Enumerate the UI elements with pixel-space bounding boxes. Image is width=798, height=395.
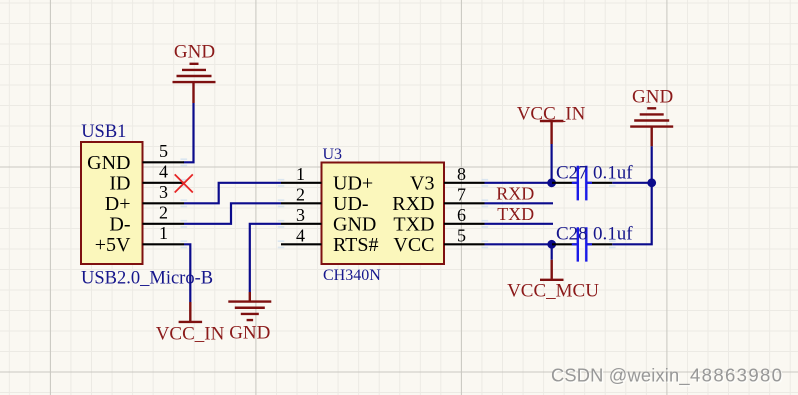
svg-text:4: 4 <box>159 161 168 181</box>
wire C27 to GND rail <box>612 182 651 184</box>
svg-text:5: 5 <box>159 141 168 161</box>
wire VCC_MCU stem <box>551 244 553 259</box>
svg-text:TXD: TXD <box>393 213 434 235</box>
svg-text:V3: V3 <box>410 172 434 194</box>
svg-text:3: 3 <box>296 205 305 225</box>
svg-text:RXD: RXD <box>496 183 534 203</box>
svg-text:VCC: VCC <box>393 234 434 256</box>
wire D- net: USB1 pin2 to U3 pin2 <box>184 203 281 224</box>
U3 pin 1 UD+ <box>281 164 373 195</box>
U3 pin 4 RTS# <box>281 225 378 256</box>
svg-text:GND: GND <box>333 213 376 235</box>
wire from GND port to USB1 pin 5 <box>184 103 194 162</box>
svg-text:CH340N: CH340N <box>323 267 381 284</box>
svg-text:8: 8 <box>457 164 466 184</box>
U3 pin 8 V3 <box>410 164 484 195</box>
wire U3 pin3 GND to ground <box>250 224 281 292</box>
svg-text:6: 6 <box>457 205 466 225</box>
power port VCC_MCU <box>540 260 564 280</box>
USB1 pin 4 ID <box>109 161 184 194</box>
power port VCC_IN (bottom, below USB1) <box>179 302 203 322</box>
svg-text:+5V: +5V <box>95 234 131 256</box>
IC U3 body <box>322 163 445 265</box>
svg-text:GND: GND <box>174 42 215 63</box>
svg-text:7: 7 <box>457 184 466 204</box>
svg-text:VCC_IN: VCC_IN <box>156 324 225 345</box>
svg-text:C27: C27 <box>556 162 588 183</box>
U3 pin 2 UD- <box>281 184 369 215</box>
wire +5V: USB1 pin1 to VCC_IN port <box>184 244 190 302</box>
wire VCC_IN port to V3 rail <box>550 144 552 183</box>
USB1 pin 3 D+ <box>105 182 184 215</box>
svg-text:VCC_MCU: VCC_MCU <box>507 281 599 302</box>
svg-text:C28: C28 <box>556 223 588 244</box>
svg-text:USB1: USB1 <box>81 122 126 142</box>
power port VCC_IN (top right) <box>540 121 564 144</box>
svg-text:5: 5 <box>457 225 466 245</box>
wire C28 right up to V3/GND rail <box>612 183 651 245</box>
junction at GND / C27 right <box>647 178 656 187</box>
power port GND (top left) <box>173 64 216 103</box>
svg-text:RTS#: RTS# <box>333 234 378 256</box>
svg-text:48863980: 48863980 <box>690 365 782 386</box>
svg-text:0.1uf: 0.1uf <box>593 223 633 244</box>
power port GND (top right) <box>630 108 673 146</box>
U3 pin 5 VCC <box>393 225 484 256</box>
USB1 pin 2 D- <box>109 202 184 235</box>
U3 pin 6 TXD <box>393 205 484 236</box>
capacitor C27 <box>552 166 612 201</box>
U3 pin 3 GND <box>281 205 376 236</box>
svg-text:U3: U3 <box>323 146 343 163</box>
svg-text:UD+: UD+ <box>333 172 373 194</box>
svg-text:GND: GND <box>229 323 270 344</box>
svg-text:2: 2 <box>159 202 168 222</box>
U3 pin 7 RXD <box>392 184 484 215</box>
power port GND (bottom center) <box>228 292 271 320</box>
pin hotspot markers <box>181 159 616 247</box>
capacitor C28 <box>552 227 612 261</box>
svg-text:D+: D+ <box>105 193 131 215</box>
svg-text:4: 4 <box>296 225 305 245</box>
svg-text:GND: GND <box>632 86 673 107</box>
no-ERC marker (red X) on USB1 pin 4 <box>175 174 193 192</box>
svg-text:GND: GND <box>87 152 130 174</box>
svg-text:D-: D- <box>109 213 130 235</box>
wire VCC net: U3 pin5 to C28 <box>485 243 552 245</box>
USB1 pin 1 +5V <box>95 223 184 256</box>
connector USB1 body <box>81 142 143 264</box>
svg-text:0.1uf: 0.1uf <box>593 162 633 183</box>
svg-text:ID: ID <box>109 172 130 194</box>
svg-text:1: 1 <box>159 223 168 243</box>
svg-text:VCC_IN: VCC_IN <box>517 103 586 124</box>
wire V3 net: U3 pin8 to C27 <box>485 182 552 184</box>
svg-text:3: 3 <box>159 182 168 202</box>
svg-text:RXD: RXD <box>392 193 434 215</box>
junction at VCC_MCU / C28 <box>547 240 556 249</box>
USB1 pin 5 GND <box>87 141 184 174</box>
svg-text:UD-: UD- <box>333 193 369 215</box>
svg-text:USB2.0_Micro-B: USB2.0_Micro-B <box>81 269 213 289</box>
svg-text:TXD: TXD <box>497 204 534 224</box>
junction at VCC_IN / C27 <box>547 178 556 187</box>
wire D+ net: USB1 pin3 to U3 pin1 <box>184 183 281 204</box>
wire TXD net <box>485 223 554 225</box>
svg-text:1: 1 <box>296 164 305 184</box>
wire RXD net <box>485 202 554 204</box>
svg-text:2: 2 <box>296 184 305 204</box>
svg-text:CSDN @weixin_: CSDN @weixin_ <box>551 365 690 387</box>
wire GND port down to rail <box>651 146 653 183</box>
